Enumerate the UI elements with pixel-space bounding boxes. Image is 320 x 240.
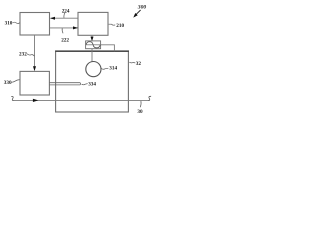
leader 310 [13, 22, 20, 23]
svg-text:310: 310 [5, 21, 13, 27]
box 330 (bottom-left block) [20, 71, 49, 95]
arrowhead 222 [73, 26, 78, 29]
box 210 (top-right block) [78, 12, 108, 35]
wire 222 (left box to right box, arrow right) [50, 27, 78, 29]
figure arrow 300 [136, 10, 141, 15]
svg-text:232: 232 [19, 52, 27, 58]
svg-text:210: 210 [116, 23, 124, 29]
svg-text:224: 224 [62, 8, 70, 14]
wire 232 (left box down to bottom box, arrow down) [34, 35, 36, 67]
leader 224 [64, 13, 65, 18]
svg-text:30: 30 [137, 109, 143, 115]
svg-text:300: 300 [137, 5, 147, 11]
left break squiggle [11, 96, 14, 100]
pump sine wave [86, 42, 100, 48]
wire from box 210 down to pump (arrow down) [91, 35, 93, 37]
circle 314 (sensor) [86, 62, 101, 77]
wire pump down to sensor circle [91, 49, 93, 62]
wire 224 (right box to left box, arrow left) [51, 17, 79, 19]
leader 232 [27, 54, 34, 56]
arrowhead on flow line [33, 99, 38, 102]
arrowhead 224 [50, 17, 55, 20]
svg-text:32: 32 [136, 61, 142, 67]
svg-text:330: 330 [4, 80, 12, 86]
right break squiggle [147, 96, 151, 100]
leader 30 [139, 101, 142, 107]
pipe from pump right into enclosure top [101, 45, 115, 51]
svg-text:222: 222 [61, 38, 69, 44]
bottom flow line (arrow right) [15, 99, 148, 101]
leader 222 [61, 28, 64, 33]
svg-text:314: 314 [109, 66, 117, 72]
svg-text:334: 334 [88, 82, 96, 88]
rod 334 (probe from box 330 into enclosure) [50, 83, 81, 85]
enclosure top edge (thick) [55, 50, 129, 52]
enclosure 32 (tank) [56, 51, 129, 112]
pump box with sine [86, 41, 101, 49]
leader 210 [109, 23, 116, 26]
leader 334 [82, 84, 88, 85]
arrowhead 232 [33, 66, 36, 71]
leader 330 [11, 80, 20, 82]
arrowhead into pump [91, 37, 94, 42]
leader 32 [129, 61, 135, 64]
leader 314 [101, 68, 108, 69]
box 310 (top-left block) [20, 13, 50, 36]
pump midline [86, 44, 101, 46]
